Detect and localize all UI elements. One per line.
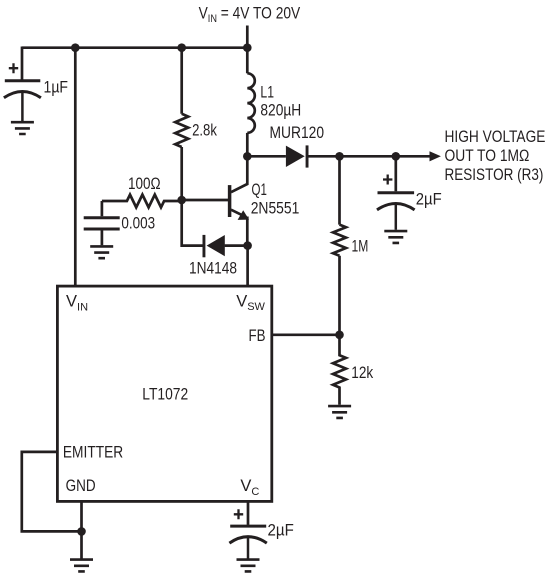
svg-text:12k: 12k xyxy=(351,364,374,382)
diode D2 1N4148 xyxy=(203,235,225,257)
wire VSW pin xyxy=(246,246,249,286)
capacitor C1 1uF xyxy=(4,63,41,121)
transistor Q1 base bar xyxy=(228,185,232,217)
wire GND pin xyxy=(80,501,83,558)
svg-text:VIN: VIN xyxy=(66,293,88,314)
node out-C2 xyxy=(392,152,401,161)
capacitor C3 0.003 xyxy=(84,218,120,229)
wire to L1 xyxy=(246,48,249,74)
node rail-L1 xyxy=(243,43,252,52)
ground GND pin xyxy=(70,560,93,572)
svg-text:Q1: Q1 xyxy=(252,181,267,199)
wire VIN stub xyxy=(246,26,249,48)
inductor L1 xyxy=(247,73,254,133)
svg-text:VC: VC xyxy=(240,477,259,498)
capacitor C2 2uF output xyxy=(377,175,415,230)
svg-text:1µF: 1µF xyxy=(44,78,69,96)
wire to 2.8k xyxy=(180,48,183,114)
wire D1 to output arrow xyxy=(308,155,431,158)
svg-text:2N5551: 2N5551 xyxy=(251,200,300,218)
ground C4 xyxy=(237,560,260,572)
wire FB pin xyxy=(272,333,340,336)
svg-text:L1: L1 xyxy=(260,84,274,102)
node out-1M xyxy=(335,152,344,161)
node emitter-D2-VSW xyxy=(243,241,252,250)
wire top rail xyxy=(22,46,247,49)
output arrowhead xyxy=(430,151,441,161)
svg-text:VSW: VSW xyxy=(236,292,265,313)
ground C2 xyxy=(384,231,407,243)
emitter arrowhead Q1 xyxy=(238,210,249,220)
wire node to diode D1 xyxy=(247,155,286,158)
transistor Q1 collector xyxy=(231,156,247,192)
capacitor 0.003 wires xyxy=(101,201,104,245)
resistor 100ohm xyxy=(102,195,182,208)
svg-text:2.8k: 2.8k xyxy=(192,122,217,140)
svg-text:EMITTER: EMITTER xyxy=(63,444,123,462)
svg-text:100Ω: 100Ω xyxy=(128,175,161,193)
resistor 12k xyxy=(333,335,346,405)
capacitor C4 2uF VC xyxy=(229,509,266,558)
node L1-D1-collector xyxy=(243,152,252,161)
wire D2 to emitter node xyxy=(225,244,248,247)
wire 2.8k to base node xyxy=(180,147,183,200)
node rail-2.8k xyxy=(177,43,186,52)
node junction dots xyxy=(71,43,400,535)
svg-text:0.003: 0.003 xyxy=(121,215,155,233)
wire 1M to FB node xyxy=(338,256,341,335)
svg-text:VIN = 4V TO 20V: VIN = 4V TO 20V xyxy=(199,4,301,25)
wire base node down to D2 xyxy=(182,200,204,246)
node FB-12k xyxy=(335,331,344,340)
svg-text:LT1072: LT1072 xyxy=(142,386,188,404)
svg-text:1N4148: 1N4148 xyxy=(189,260,237,278)
svg-text:MUR120: MUR120 xyxy=(270,124,325,142)
node rail-C1 xyxy=(71,43,80,52)
wire base xyxy=(182,199,228,202)
resistor 2.8k xyxy=(175,114,188,147)
svg-text:HIGH VOLTAGE: HIGH VOLTAGE xyxy=(445,128,546,146)
node emitter-gnd xyxy=(77,527,86,536)
wire L1 to node xyxy=(246,133,249,156)
wire to C1 xyxy=(21,47,24,81)
wire to 1M xyxy=(338,156,341,224)
ground C3 xyxy=(90,246,113,258)
svg-text:2µF: 2µF xyxy=(416,191,442,209)
transistor Q1 emitter xyxy=(231,210,247,246)
svg-text:820µH: 820µH xyxy=(260,102,301,120)
ground C1 xyxy=(11,122,34,134)
ground 12k xyxy=(328,406,351,418)
op-amp U1 LT1072 box xyxy=(57,286,271,501)
svg-text:RESISTOR (R3): RESISTOR (R3) xyxy=(445,166,544,184)
svg-text:GND: GND xyxy=(66,477,96,495)
diode D1 MUR120 xyxy=(286,145,309,167)
capacitor C2 wire xyxy=(394,156,397,191)
wire VIN pin xyxy=(74,48,77,286)
svg-text:1M: 1M xyxy=(352,238,369,256)
node base xyxy=(177,196,186,205)
wire EMITTER pin xyxy=(22,452,82,532)
svg-text:OUT TO 1MΩ: OUT TO 1MΩ xyxy=(445,147,530,165)
svg-text:FB: FB xyxy=(249,327,266,345)
resistor 1M xyxy=(333,225,346,256)
svg-text:2µF: 2µF xyxy=(268,522,294,540)
wire VC pin xyxy=(247,501,250,525)
